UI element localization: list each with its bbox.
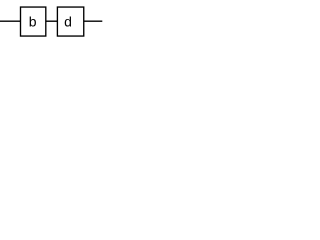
block D1 (box labelled d) xyxy=(57,7,83,36)
block B1 (box labelled b) xyxy=(21,7,46,36)
wire right lead xyxy=(84,20,103,22)
svg-text:d: d xyxy=(64,14,72,30)
wire left lead xyxy=(0,20,21,22)
svg-text:b: b xyxy=(29,14,37,30)
wire between blocks xyxy=(46,20,58,22)
